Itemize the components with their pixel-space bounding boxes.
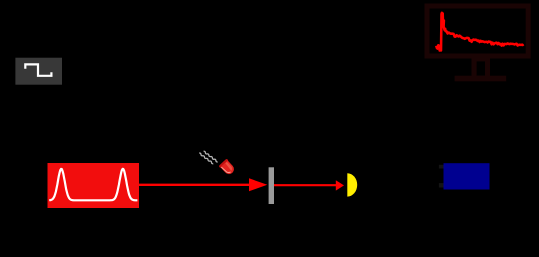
LED icon bbox=[199, 149, 237, 176]
electronics box bbox=[444, 163, 490, 189]
trigger step symbol bbox=[25, 64, 51, 75]
detector (photomultiplier) bbox=[347, 173, 357, 196]
decay curve on monitor bbox=[436, 13, 523, 51]
beam arrow 2 (sample to detector) bbox=[274, 180, 344, 190]
monitor frame bbox=[427, 6, 528, 56]
pulse generator box bbox=[15, 58, 62, 85]
beam arrow 1 (laser to sample) bbox=[139, 178, 267, 191]
monitor base bbox=[455, 76, 507, 82]
monitor stand neck bbox=[472, 59, 491, 77]
LED body bbox=[219, 159, 237, 177]
LED legs bbox=[199, 149, 218, 165]
sample / attenuator bar bbox=[269, 167, 274, 204]
laser pulse waveform bbox=[49, 169, 137, 200]
laser box bbox=[48, 163, 140, 208]
electronics connector nubs bbox=[439, 165, 444, 169]
